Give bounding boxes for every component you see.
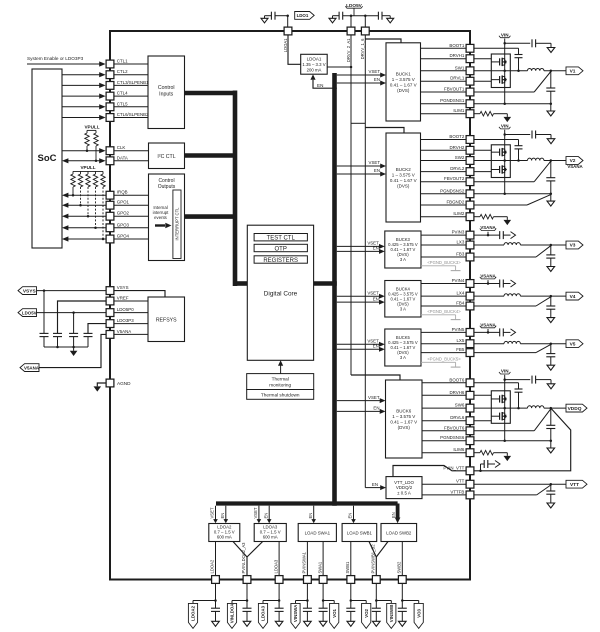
wire SWB2 pin down bbox=[401, 584, 404, 602]
svg-text:SWA1: SWA1 bbox=[317, 561, 322, 573]
bypass ground rail bbox=[44, 346, 88, 348]
svg-text:1 – 3.575 V: 1 – 3.575 V bbox=[392, 172, 415, 177]
wire GPO1 pin to Control Outputs bbox=[114, 204, 148, 206]
pin GPO1 bbox=[106, 200, 129, 209]
svg-text:VIN: VIN bbox=[501, 369, 509, 374]
svg-text:VREF: VREF bbox=[117, 296, 129, 301]
svg-text:V5ANA: V5ANA bbox=[117, 329, 131, 334]
svg-text:CLK: CLK bbox=[117, 145, 126, 150]
pin CTL4 bbox=[106, 91, 128, 100]
wire PVIN arrow (BUCK4) bbox=[503, 283, 510, 285]
pin GPO3 bbox=[106, 222, 129, 231]
svg-text:DRVL6: DRVL6 bbox=[450, 415, 465, 420]
svg-text:LDO5P0: LDO5P0 bbox=[117, 307, 134, 312]
pin CTL2 bbox=[106, 69, 128, 78]
wire PVIN_VTT cap stub bbox=[481, 464, 485, 471]
wire PVIN5 block to pin bbox=[421, 331, 466, 333]
wire DRVL (BUCK6) bbox=[474, 420, 491, 422]
V4 net tag bbox=[566, 292, 583, 300]
wire LX output (BUCK5) bbox=[520, 342, 566, 345]
bus stub into Digital Core left bbox=[233, 281, 247, 286]
svg-text:EN: EN bbox=[374, 77, 380, 82]
bus stub from I2C CTL bbox=[184, 153, 237, 158]
wire ILIM (BUCK2) bbox=[474, 216, 480, 218]
wire to gnd (BUCK2) bbox=[536, 134, 551, 136]
pin CTL1 bbox=[106, 59, 128, 68]
inductor (BUCK3) bbox=[504, 243, 520, 245]
wire GPO4 pin to Control Outputs bbox=[114, 238, 148, 240]
svg-text:BOOT2: BOOT2 bbox=[449, 134, 464, 139]
wire to VO3 tag bbox=[402, 601, 418, 604]
wire CTL1 from System Enable bbox=[27, 61, 106, 66]
ground SWB2 cap bbox=[399, 621, 407, 626]
VO3 net tag bbox=[414, 603, 423, 628]
wire PGNDSNS1 block to pin bbox=[421, 103, 466, 105]
wire FB3 block to pin bbox=[421, 256, 466, 258]
svg-text:EN: EN bbox=[391, 512, 396, 518]
svg-text:VSET: VSET bbox=[367, 290, 379, 295]
svg-text:<PGND_BUCK4>: <PGND_BUCK4> bbox=[427, 309, 461, 314]
svg-text:BUCK2: BUCK2 bbox=[396, 167, 412, 172]
pin BOOT6 bbox=[449, 377, 473, 386]
wire DRVH1 block to pin bbox=[421, 58, 466, 60]
VINSWB net tag bbox=[387, 603, 396, 628]
wire to LDOA2 tag bbox=[193, 601, 216, 604]
wire FET stack (BUCK2) bbox=[503, 159, 506, 195]
wire CTL6 pin to Control Inputs bbox=[114, 117, 148, 119]
OTP block bbox=[254, 244, 307, 252]
pin FBVOUT6 bbox=[444, 425, 474, 434]
wire LDOA2 pin down bbox=[214, 584, 217, 602]
wire DRVV_2_A1 to BUCK6 bbox=[351, 375, 400, 380]
resistor ILIM (BUCK2) bbox=[480, 214, 494, 219]
svg-text:VSET: VSET bbox=[210, 507, 215, 518]
ground SWA1 cap bbox=[319, 621, 327, 626]
analog ground arrow (bypass rail) bbox=[70, 347, 78, 356]
wire VSET to BUCK4 bbox=[337, 290, 385, 298]
pin DRVL1 bbox=[450, 76, 474, 85]
ground PVINSWB1_B2 cap bbox=[373, 621, 381, 626]
pin BOOT1 bbox=[449, 43, 473, 52]
PGND_BUCK3 net stub bbox=[421, 260, 461, 271]
PGND_BUCK5 net stub bbox=[421, 356, 461, 367]
wire DRVV_2_A1 vertical bbox=[350, 35, 353, 375]
regulator block BUCK6 bbox=[386, 380, 423, 458]
wire PVIN4 block to pin bbox=[421, 283, 466, 285]
wire CLK pin to I2C CTL bbox=[114, 150, 148, 152]
resistor pull-up GPO line 3 bbox=[86, 171, 90, 217]
wire EN to BUCK2 bbox=[337, 168, 386, 176]
svg-text:GPO2: GPO2 bbox=[117, 211, 130, 216]
pin DRVL2 bbox=[450, 166, 474, 175]
wire SWA1 output bbox=[322, 542, 324, 576]
pin CTL3/SLPENB1 bbox=[106, 80, 149, 89]
svg-text:LOAD SWB1: LOAD SWB1 bbox=[347, 531, 373, 536]
resistor pull-up CLK bbox=[85, 130, 89, 152]
svg-text:PVIN5: PVIN5 bbox=[452, 327, 465, 332]
wire IRQB to SoC bbox=[62, 193, 106, 198]
svg-text:PVINLDOA2_A3: PVINLDOA2_A3 bbox=[241, 542, 246, 574]
pin PGNDSNS1 bbox=[440, 98, 474, 107]
wire LDO3P3 external bbox=[88, 324, 106, 334]
svg-text:<PGND_BUCK3>: <PGND_BUCK3> bbox=[427, 260, 461, 265]
capacitor LDO5V left bbox=[339, 12, 343, 20]
wire VSET to BUCK2 bbox=[337, 160, 386, 168]
wire CTL2 from SoC bbox=[62, 72, 106, 77]
ground output (BUCK6) bbox=[547, 441, 555, 453]
resistor pull-up GPO line 5 bbox=[101, 171, 105, 240]
power FET pair (BUCK2) bbox=[491, 145, 510, 178]
main bus (right vertical) bbox=[332, 73, 337, 506]
svg-text:VPULL: VPULL bbox=[80, 165, 95, 170]
capacitor output (BUCK2) bbox=[546, 161, 555, 194]
VIN net label (BUCK1) bbox=[499, 32, 510, 37]
wire PVINSWA1 bbox=[306, 542, 308, 576]
wire CTL5 from SoC bbox=[62, 104, 106, 109]
ground LDOA2 cap bbox=[212, 621, 220, 626]
open arrow to supply (BUCK3) bbox=[511, 232, 516, 239]
capacitor output (BUCK1) bbox=[546, 71, 555, 104]
svg-text:EN: EN bbox=[317, 83, 323, 88]
pin IRQB bbox=[106, 190, 128, 199]
resistor ILIM (BUCK1) bbox=[480, 111, 494, 116]
wire to VINSWB tag bbox=[376, 601, 391, 604]
pin LDOA3 bbox=[273, 559, 283, 583]
wire SWB2 output bbox=[401, 542, 403, 576]
svg-text:V3: V3 bbox=[570, 243, 576, 249]
capacitor LDOA3 bbox=[275, 601, 284, 622]
svg-text:EN: EN bbox=[263, 513, 268, 519]
svg-text:V5: V5 bbox=[570, 341, 576, 347]
wire DRVH (BUCK6) bbox=[474, 394, 491, 396]
svg-text:EN: EN bbox=[373, 246, 379, 251]
svg-text:I²C CTL: I²C CTL bbox=[157, 154, 175, 160]
svg-text:GPO1: GPO1 bbox=[117, 200, 130, 205]
PMIC chip boundary bbox=[110, 31, 470, 580]
wire ILIM (BUCK1) bbox=[474, 113, 480, 115]
wire BOOT (BUCK6) bbox=[474, 383, 519, 389]
svg-text:SoC: SoC bbox=[38, 153, 57, 164]
wire output (BUCK1) bbox=[544, 70, 566, 73]
pin DRVV_1_6 bbox=[360, 27, 369, 59]
svg-text:BOOT6: BOOT6 bbox=[449, 377, 464, 382]
resistor ILIM (BUCK6) bbox=[480, 450, 494, 455]
svg-text:EN: EN bbox=[373, 344, 379, 349]
svg-text:1 – 3.575 V: 1 – 3.575 V bbox=[392, 77, 415, 82]
VINSWA net tag bbox=[291, 603, 300, 628]
wire LDOA2 input bbox=[233, 542, 247, 576]
svg-text:<PGND_BUCK5>: <PGND_BUCK5> bbox=[427, 356, 461, 361]
svg-text:REFSYS: REFSYS bbox=[156, 318, 177, 324]
VSANA net label (BUCK4) bbox=[480, 274, 497, 279]
pin LX3 bbox=[456, 240, 473, 249]
ground (LDO5V left cap) bbox=[329, 16, 339, 23]
pin SW6 bbox=[455, 403, 474, 412]
wire FET stack (BUCK6) bbox=[503, 407, 506, 442]
label System Enable or LDO3P3 bbox=[27, 56, 84, 61]
svg-text:600 mA: 600 mA bbox=[263, 535, 278, 540]
svg-text:PVINSWA1: PVINSWA1 bbox=[302, 551, 307, 573]
wire PVINSWA1 pin down bbox=[306, 584, 309, 602]
wire IRQB pin to Control Outputs bbox=[114, 194, 148, 196]
wire to VO2 tag bbox=[351, 601, 366, 604]
wire DRVL6 block to pin bbox=[422, 420, 466, 422]
capacitor output (BUCK6) bbox=[546, 408, 555, 441]
svg-text:PGNDSNS1: PGNDSNS1 bbox=[440, 98, 465, 103]
capacitor LDO5V right bbox=[378, 12, 382, 20]
svg-text:CTL2: CTL2 bbox=[117, 69, 128, 74]
wire SWB2 input bbox=[376, 542, 388, 558]
svg-text:3 A: 3 A bbox=[400, 257, 406, 262]
capacitor output (BUCK3) bbox=[546, 245, 555, 267]
pin PVIN5 bbox=[452, 327, 474, 336]
I2C CTL block bbox=[149, 143, 185, 169]
ground PVINSWA1 cap bbox=[304, 621, 312, 626]
svg-text:FBVOUT2: FBVOUT2 bbox=[444, 176, 465, 181]
wire LX (BUCK5) bbox=[474, 343, 504, 345]
svg-text:VTT: VTT bbox=[570, 482, 579, 488]
wire GPO4 to SoC bbox=[62, 236, 106, 241]
resistor pull-up GPO line 1 bbox=[71, 171, 75, 196]
LDO5V net tag bbox=[18, 309, 37, 317]
ground LDOA3 cap bbox=[275, 621, 283, 626]
TEST CTL block bbox=[254, 234, 307, 242]
ground (LDO5V right cap) bbox=[382, 16, 394, 23]
wire VSET to LDOA3 bbox=[253, 506, 261, 524]
svg-text:LDO5V: LDO5V bbox=[346, 3, 363, 8]
wire SW6 block to pin bbox=[422, 407, 466, 409]
pin SWB1 bbox=[345, 561, 355, 583]
svg-text:VSYS: VSYS bbox=[117, 285, 129, 290]
svg-text:INTERRUPT CTL: INTERRUPT CTL bbox=[175, 207, 180, 241]
pin SW1 bbox=[455, 65, 474, 74]
wire to gnd (BUCK1) bbox=[536, 42, 551, 44]
inductor (BUCK5) bbox=[504, 341, 520, 343]
wire SW2 block to pin bbox=[421, 160, 466, 162]
wire VSYS external bbox=[37, 289, 106, 292]
svg-text:SW2: SW2 bbox=[455, 155, 465, 160]
pull-up rail GPO bbox=[73, 170, 103, 172]
wire BOOT2 block to pin bbox=[421, 139, 466, 141]
wire DRVV_1_6 to BUCK1 bbox=[365, 39, 401, 43]
svg-text:EN: EN bbox=[220, 513, 225, 519]
svg-text:DRVL2: DRVL2 bbox=[450, 166, 465, 171]
pin PVINSWB1_B2 bbox=[371, 544, 381, 584]
wire LX5 block to pin bbox=[421, 343, 466, 345]
svg-text:VSANA: VSANA bbox=[480, 322, 496, 327]
wire LDO5P0 pin to REFSYS bbox=[114, 312, 148, 314]
svg-text:EN: EN bbox=[373, 406, 379, 411]
wire CTL5 pin to Control Inputs bbox=[114, 106, 148, 108]
interrupt event arrow bbox=[155, 223, 172, 229]
wire DRVL (BUCK1) bbox=[474, 80, 491, 82]
svg-text:VINLDOA: VINLDOA bbox=[230, 603, 235, 624]
pin PVIN4 bbox=[452, 278, 474, 287]
VSYS net tag bbox=[18, 287, 37, 295]
V3 net tag bbox=[566, 241, 583, 249]
svg-text:LOAD SWA1: LOAD SWA1 bbox=[305, 531, 331, 536]
svg-text:Control: Control bbox=[158, 85, 175, 91]
wire ILIM to gnd (BUCK2) bbox=[494, 217, 508, 220]
svg-text:Thermal: Thermal bbox=[272, 377, 289, 382]
svg-text:600 mA: 600 mA bbox=[217, 535, 232, 540]
wire BOOT1 block to pin bbox=[421, 47, 466, 49]
inductor (BUCK4) bbox=[504, 294, 520, 296]
svg-text:DRVH6: DRVH6 bbox=[449, 390, 464, 395]
svg-text:LDOA2: LDOA2 bbox=[191, 605, 196, 620]
svg-text:PVIN_VTT: PVIN_VTT bbox=[443, 465, 464, 470]
wire EN to BUCK1 bbox=[337, 77, 386, 85]
wire ILIM to gnd (BUCK1) bbox=[494, 114, 508, 117]
wire SWB1 pin down bbox=[350, 584, 353, 602]
wire to VINLDOA tag bbox=[232, 601, 247, 604]
analog ground ILIM (BUCK1) bbox=[504, 117, 512, 122]
VSANA net label (BUCK3) bbox=[480, 225, 497, 230]
wire output (BUCK2) bbox=[544, 159, 566, 162]
Digital Core block bbox=[247, 225, 313, 360]
capacitor bootstrap (BUCK6) bbox=[515, 389, 523, 408]
wire AGND external bbox=[97, 383, 105, 386]
V1 net tag bbox=[566, 67, 583, 75]
svg-text:LDOA2: LDOA2 bbox=[210, 559, 215, 573]
wire DRVL1 block to pin bbox=[421, 80, 466, 82]
wire EN to BUCK6 bbox=[337, 406, 386, 414]
ground output (BUCK4) bbox=[547, 318, 555, 323]
svg-text:FB4: FB4 bbox=[456, 301, 465, 306]
wire PVIN arrow (BUCK3) bbox=[503, 234, 510, 236]
V5ANA net tag bbox=[20, 364, 40, 372]
svg-text:LDOA1: LDOA1 bbox=[307, 57, 322, 62]
wire LX4 block to pin bbox=[421, 295, 466, 297]
regulator block BUCK3 bbox=[385, 231, 421, 268]
capacitor LDO3P3 bypass bbox=[84, 333, 93, 347]
wire VIN rail (BUCK2) bbox=[503, 130, 506, 161]
VSANA label under V2 tag bbox=[567, 164, 583, 169]
svg-text:REGISTERS: REGISTERS bbox=[263, 258, 298, 264]
thermal to core arrow bbox=[278, 360, 283, 373]
wire PVINLDOA2_A3 pin down bbox=[246, 584, 249, 602]
pin DATA bbox=[106, 155, 128, 164]
pin VTT bbox=[456, 479, 474, 488]
capacitor PVINSWA1 bbox=[303, 601, 312, 622]
wire FBVOUT2 block to pin bbox=[421, 181, 466, 183]
pin CLK bbox=[106, 145, 125, 154]
wire SWA1 pin down bbox=[322, 584, 325, 602]
capacitor VIN (BUCK1) bbox=[532, 39, 536, 47]
wire CTL2 pin to Control Inputs bbox=[114, 74, 148, 76]
Control Inputs block bbox=[148, 56, 185, 129]
svg-text:0.41 – 1.67 V: 0.41 – 1.67 V bbox=[390, 82, 417, 87]
svg-text:VSET: VSET bbox=[368, 395, 380, 400]
VDDQ net tag bbox=[566, 404, 587, 412]
svg-text:VO1: VO1 bbox=[332, 608, 337, 617]
wire VTT internal bbox=[422, 483, 466, 485]
svg-text:LX5: LX5 bbox=[456, 338, 464, 343]
pin VSYS bbox=[106, 285, 128, 294]
VPULL label (I2C) bbox=[84, 125, 99, 130]
wire DRVH (BUCK1) bbox=[474, 58, 491, 60]
pin ILIM2 bbox=[453, 211, 474, 220]
wire VSYS pin to REFSYS bbox=[114, 291, 165, 297]
wire LX (BUCK3) bbox=[474, 244, 504, 246]
wire VTT output bbox=[474, 483, 566, 486]
svg-text:TEST CTL: TEST CTL bbox=[267, 236, 296, 242]
pin DRVL6 bbox=[450, 415, 474, 424]
regulator block VTT_LDO bbox=[386, 477, 422, 499]
capacitor PVIN_VTT bbox=[484, 460, 488, 468]
pin V5ANA bbox=[106, 329, 131, 338]
svg-text:VIN: VIN bbox=[501, 124, 509, 129]
capacitor output (BUCK4) bbox=[546, 296, 555, 318]
pin DRVH1 bbox=[449, 53, 473, 62]
pin LDOA2 bbox=[210, 559, 220, 583]
wire PVIN3 block to pin bbox=[421, 234, 466, 236]
pin FB4 bbox=[456, 301, 474, 310]
svg-text:DRVH1: DRVH1 bbox=[449, 53, 464, 58]
capacitor VTT output bbox=[546, 484, 555, 503]
pin PGNDSNS2 bbox=[440, 188, 474, 197]
wire VTTFB sense bbox=[474, 485, 551, 495]
wire PVIN (BUCK4) bbox=[474, 280, 500, 285]
wire LDOA2 output to pin bbox=[215, 542, 217, 576]
wire CLK from SoC bbox=[62, 148, 106, 153]
analog ground ILIM (BUCK6) bbox=[504, 456, 512, 461]
svg-text:EN: EN bbox=[373, 296, 379, 301]
wire GPO3 to SoC bbox=[62, 225, 106, 230]
capacitor SWB1 bbox=[346, 601, 355, 622]
svg-text:CTL4: CTL4 bbox=[117, 91, 128, 96]
ground output (BUCK2) bbox=[547, 194, 555, 206]
wire CTL4 pin to Control Inputs bbox=[114, 95, 148, 97]
Thermal shutdown block bbox=[247, 390, 314, 400]
capacitor PVINLDOA2_A3 bbox=[243, 601, 252, 622]
capacitor LDO5P0 bypass bbox=[69, 313, 78, 349]
wire GPO2 pin to Control Outputs bbox=[114, 215, 148, 217]
wire GPO3 pin to Control Outputs bbox=[114, 227, 148, 229]
wire V5ANA external bbox=[39, 334, 106, 367]
svg-text:CTL5: CTL5 bbox=[117, 101, 128, 106]
pin PVINLDOA2_A3 bbox=[241, 542, 251, 584]
svg-text:VSET: VSET bbox=[253, 507, 258, 518]
wire PGNDSNS2 block to pin bbox=[421, 193, 466, 195]
wire LDOA1 pin up bbox=[287, 16, 289, 27]
svg-text:Control: Control bbox=[158, 178, 174, 184]
wire to VINSWA tag bbox=[296, 601, 308, 604]
svg-text:Digital Core: Digital Core bbox=[264, 291, 298, 298]
wire VSET to BUCK1 bbox=[337, 69, 386, 77]
regulator block BUCK5 bbox=[385, 329, 421, 366]
capacitor PVINSWB1_B2 bbox=[372, 601, 381, 622]
wire VSET to BUCK6 bbox=[337, 395, 386, 403]
svg-text:SWB1: SWB1 bbox=[345, 561, 350, 574]
wire to VO1 tag bbox=[323, 601, 334, 604]
svg-text:BOOT1: BOOT1 bbox=[449, 43, 464, 48]
capacitor VREF bypass bbox=[53, 333, 62, 348]
pin ILIM6 bbox=[453, 447, 474, 456]
svg-text:VPULL: VPULL bbox=[84, 125, 99, 130]
wire EN to BUCK4 bbox=[337, 296, 385, 304]
wire BOOT6 block to pin bbox=[422, 382, 466, 384]
bus drop to LOAD SWB2 EN bbox=[391, 504, 400, 524]
wire VSET to LDOA2 bbox=[210, 506, 218, 524]
capacitor PVIN (BUCK5) bbox=[500, 328, 504, 336]
svg-text:SW1: SW1 bbox=[455, 65, 465, 70]
pin FB3 bbox=[456, 252, 474, 261]
ground (LDOA1 cap) bbox=[261, 16, 271, 23]
pin FB5 bbox=[456, 347, 474, 356]
inductor (BUCK2) bbox=[528, 158, 544, 160]
pin GPO4 bbox=[106, 234, 129, 243]
